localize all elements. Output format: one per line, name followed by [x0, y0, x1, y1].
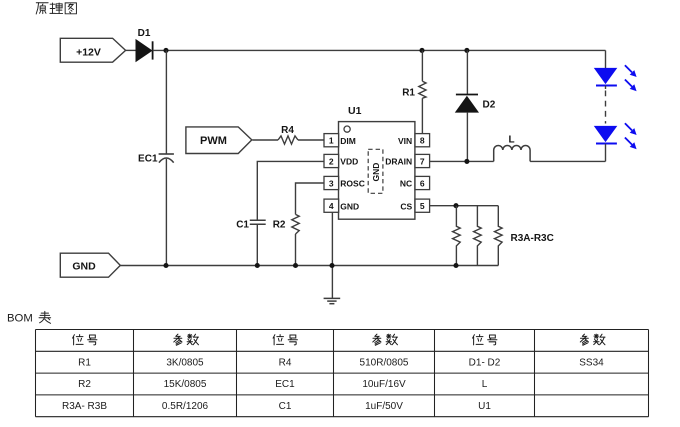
- wire: R1 to pin 8 VIN: [421, 98, 423, 133]
- svg-text:7: 7: [420, 156, 425, 166]
- svg-text:ROSC: ROSC: [340, 179, 365, 189]
- junction: top rail / D2: [464, 48, 469, 53]
- svg-text:4: 4: [329, 201, 334, 211]
- BOM table grid: [36, 330, 649, 417]
- svg-text:GND: GND: [371, 163, 381, 182]
- wire: pin 5 CS to sense resistors: [430, 205, 499, 207]
- resistor R3B: [474, 206, 482, 266]
- resistor R1: [402, 81, 426, 98]
- svg-text:R4: R4: [279, 357, 292, 368]
- svg-text:6: 6: [420, 178, 425, 188]
- svg-text:D2: D2: [483, 100, 496, 111]
- svg-text:U1: U1: [348, 105, 362, 117]
- wire: EC1 branch vertical: [165, 50, 167, 153]
- svg-text:C1: C1: [236, 219, 249, 230]
- svg-text:VDD: VDD: [340, 157, 358, 167]
- junction: top rail / R1: [419, 48, 424, 53]
- junction: DRAIN / D2: [464, 159, 469, 164]
- svg-text:R4: R4: [281, 125, 294, 136]
- pin 1 (DIM): [324, 134, 356, 147]
- diode D1: [126, 28, 153, 62]
- wire: +12V top rail: [153, 49, 606, 51]
- svg-text:1uF/50V: 1uF/50V: [365, 401, 403, 412]
- resistor R3C: [495, 206, 503, 266]
- wire: pin 2 VDD to C1: [257, 161, 324, 220]
- wire: pin 3 ROSC to R2: [296, 183, 325, 214]
- svg-text:R3A- R3B: R3A- R3B: [62, 401, 107, 412]
- pin 7 (DRAIN): [385, 154, 429, 167]
- svg-text:2: 2: [329, 156, 334, 166]
- pin 3 (ROSC): [324, 176, 365, 189]
- svg-text:D1- D2: D1- D2: [469, 357, 501, 368]
- svg-text:EC1: EC1: [138, 153, 158, 164]
- wire: LED1 cathode stub: [605, 86, 607, 89]
- junction: bus / C1: [255, 263, 260, 268]
- wire: D2 to DRAIN net: [466, 113, 468, 162]
- svg-text:1: 1: [329, 136, 334, 146]
- svg-text:3: 3: [329, 178, 334, 188]
- capacitor C1: [236, 219, 265, 230]
- IC U1 body: [339, 105, 415, 219]
- svg-text:R3A-R3C: R3A-R3C: [511, 233, 554, 244]
- svg-text:L: L: [508, 135, 514, 146]
- svg-text:0.5R/1206: 0.5R/1206: [162, 401, 209, 412]
- svg-text:15K/0805: 15K/0805: [164, 379, 207, 390]
- wire: ground bus: [120, 265, 499, 267]
- junction: bus / pin4: [329, 263, 334, 268]
- svg-text:3K/0805: 3K/0805: [166, 357, 204, 368]
- svg-text:U1: U1: [478, 401, 491, 412]
- junction: CS rail: [453, 203, 458, 208]
- inductor L: [494, 135, 530, 162]
- svg-text:EC1: EC1: [275, 379, 295, 390]
- diode D2: [455, 95, 496, 113]
- wire: top rail to D2: [466, 50, 468, 94]
- pin 2 (VDD): [324, 154, 358, 167]
- pin 8 (VIN): [398, 134, 430, 147]
- svg-text:BOM: BOM: [7, 313, 33, 325]
- resistor R4: [278, 125, 298, 144]
- svg-text:R1: R1: [402, 87, 415, 98]
- wire: pin 7 DRAIN to inductor: [430, 160, 494, 162]
- svg-text:DRAIN: DRAIN: [385, 157, 412, 167]
- LED LED2: [594, 123, 637, 149]
- svg-text:NC: NC: [400, 179, 412, 189]
- junction: bus / EC1: [163, 263, 168, 268]
- junction: bus / R2: [293, 263, 298, 268]
- BOM table header: [73, 334, 605, 345]
- resistor R2: [273, 214, 299, 234]
- ground symbol: [324, 298, 341, 303]
- input flag PWM: [186, 127, 252, 154]
- BOM table caption: [7, 311, 51, 324]
- IC U1 thermal pad (dashed GND box): [368, 149, 383, 193]
- pin 4 (GND): [324, 199, 359, 212]
- svg-text:DIM: DIM: [340, 136, 356, 146]
- svg-text:R2: R2: [273, 219, 286, 230]
- BOM table data: [62, 357, 604, 412]
- svg-text:PWM: PWM: [200, 135, 227, 147]
- capacitor EC1 (electrolytic): [138, 153, 174, 164]
- svg-text:C1: C1: [279, 401, 292, 412]
- svg-text:R2: R2: [78, 379, 91, 390]
- wire: top rail to R1: [421, 50, 423, 81]
- svg-text:5: 5: [420, 201, 425, 211]
- wire: inductor to LED string: [530, 160, 605, 162]
- wire: top rail down to LED1: [605, 50, 607, 68]
- pin 5 (CS): [400, 199, 429, 212]
- junction: top rail / EC1: [163, 48, 168, 53]
- svg-text:D1: D1: [138, 28, 151, 39]
- svg-text:GND: GND: [72, 261, 96, 273]
- wire: LED2 cathode to DRAIN net: [605, 144, 607, 162]
- title text 原理图: [36, 3, 76, 14]
- wire: dashed LED link: [605, 91, 607, 124]
- power flag +12V: [60, 38, 125, 62]
- svg-text:GND: GND: [340, 201, 359, 211]
- svg-text:8: 8: [420, 136, 425, 146]
- pin 6 (NC): [400, 176, 430, 189]
- wire: R2 to ground bus: [295, 234, 297, 266]
- svg-text:510R/0805: 510R/0805: [360, 357, 409, 368]
- svg-text:SS34: SS34: [579, 357, 604, 368]
- ground flag GND: [60, 253, 120, 277]
- svg-text:VIN: VIN: [398, 136, 412, 146]
- resistor R3A: [453, 206, 461, 266]
- svg-text:10uF/16V: 10uF/16V: [362, 379, 406, 390]
- svg-text:L: L: [482, 379, 488, 390]
- wire: R4 to pin 1: [298, 139, 324, 141]
- wire: pin 4 GND down to ground: [331, 212, 333, 298]
- LED LED1: [594, 65, 637, 91]
- svg-text:CS: CS: [400, 201, 412, 211]
- svg-text:R1: R1: [78, 357, 91, 368]
- wire: C1 to ground bus: [256, 224, 258, 265]
- junction: bus / R3A: [453, 263, 458, 268]
- svg-text:+12V: +12V: [76, 46, 101, 58]
- wire: PWM to R4: [252, 139, 278, 141]
